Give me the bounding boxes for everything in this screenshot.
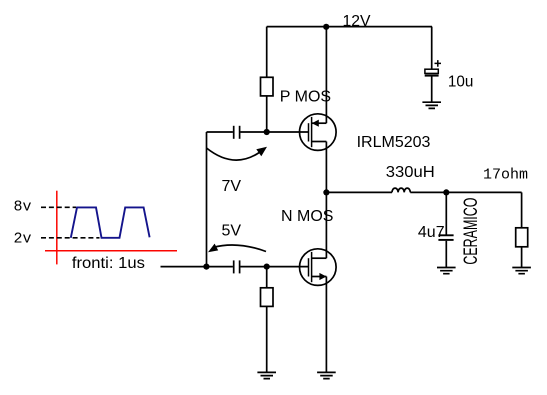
svg-text:IRLM5203: IRLM5203 xyxy=(357,134,431,151)
svg-text:330uH: 330uH xyxy=(386,164,435,181)
svg-text:2v: 2v xyxy=(14,231,32,248)
svg-text:10u: 10u xyxy=(448,73,474,90)
svg-text:7V: 7V xyxy=(222,178,242,195)
svg-text:4u7: 4u7 xyxy=(418,224,445,241)
svg-text:5V: 5V xyxy=(222,223,242,240)
svg-text:fronti: 1us: fronti: 1us xyxy=(72,255,145,272)
svg-text:8v: 8v xyxy=(14,199,32,216)
svg-text:CERAMICO: CERAMICO xyxy=(460,198,482,265)
svg-text:17ohm: 17ohm xyxy=(483,167,528,184)
svg-text:12V: 12V xyxy=(343,13,371,30)
svg-text:N MOS: N MOS xyxy=(281,208,333,225)
svg-text:P MOS: P MOS xyxy=(280,88,331,105)
